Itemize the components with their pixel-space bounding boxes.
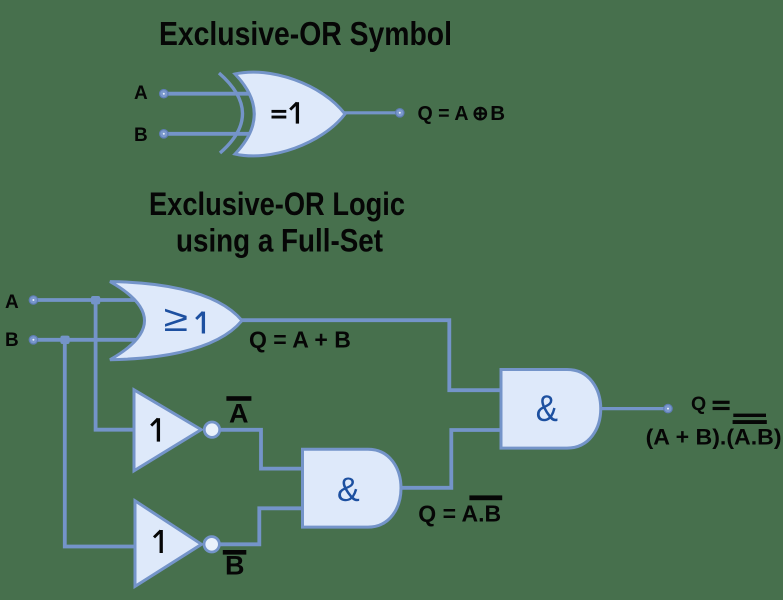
junction on B wire [60, 336, 69, 344]
svg-text:B: B [225, 551, 245, 581]
NOT1 bubble [204, 422, 219, 437]
wire: input A to XOR gate [166, 92, 258, 96]
wire: AND2 output [600, 407, 664, 410]
input terminal B (full-set) [29, 336, 37, 344]
value label 1 (NOT1) [151, 419, 158, 426]
AND gate U6 (&) output [501, 370, 601, 449]
svg-text:Q = A + B: Q = A + B [249, 327, 351, 353]
svg-text:&: & [337, 471, 360, 509]
junction on A wire [91, 296, 100, 304]
value label =1 [272, 110, 287, 113]
svg-text:≥: ≥ [164, 298, 188, 340]
svg-text:(A + B).(A.B): (A + B).(A.B) [646, 424, 782, 449]
wire: NOT2 output to AND1 bottom input [220, 508, 303, 544]
label: Q = A xor B [418, 102, 506, 125]
input terminal A [160, 90, 168, 98]
label: A-bar [226, 396, 251, 428]
svg-text:&: & [536, 388, 558, 429]
AND gate U5 (&) middle [303, 449, 402, 527]
label: Q = A-bar.B-bar [418, 495, 502, 526]
NOT gate U4 (inverter for B) [135, 501, 219, 587]
NOT gate U3 (inverter for A) [134, 390, 220, 471]
wire: input A to OR gate [36, 298, 150, 302]
input terminal B [160, 130, 168, 138]
OR gate U2 (>=1) [110, 282, 242, 360]
wire: input B to OR gate [36, 338, 150, 342]
wire: XOR output [344, 111, 396, 114]
NOT2 bubble [204, 537, 219, 552]
svg-text:A: A [134, 83, 148, 104]
wire: B junction down to NOT2 input [65, 340, 140, 547]
XOR gate U1 (=1) [219, 72, 345, 156]
label: Q = (A + B).(A-bar.B-bar) [646, 393, 782, 449]
svg-text:B: B [134, 125, 148, 146]
svg-text:using a Full-Set: using a Full-Set [176, 223, 383, 259]
XOR input chevron arc [219, 73, 243, 153]
svg-text:B: B [5, 330, 19, 351]
value label 1 (NOT2) [154, 531, 161, 538]
wire: A junction down to NOT1 input [96, 300, 140, 430]
svg-text:A: A [229, 399, 249, 429]
label: B-bar [223, 550, 247, 581]
input terminal A (full-set) [29, 296, 37, 304]
wire: input B to XOR gate [166, 132, 258, 136]
svg-text:B: B [490, 102, 505, 125]
svg-text:Q = A: Q = A [418, 102, 469, 125]
wire: NOT1 output to AND1 top input [220, 430, 303, 469]
svg-text:Q: Q [691, 393, 706, 415]
XOR gate body [235, 72, 345, 156]
wire: AND1 output to AND2 bottom input [401, 430, 502, 488]
output terminal Q (XOR symbol) [396, 109, 404, 117]
svg-text:A: A [5, 292, 19, 313]
wire: OR output to AND2 top input [241, 320, 502, 390]
svg-text:Exclusive-OR Logic: Exclusive-OR Logic [149, 186, 405, 222]
output terminal Q (full-set) [664, 404, 672, 412]
svg-text:Exclusive-OR Symbol: Exclusive-OR Symbol [159, 15, 452, 52]
svg-text:Q = A.B: Q = A.B [418, 501, 501, 527]
